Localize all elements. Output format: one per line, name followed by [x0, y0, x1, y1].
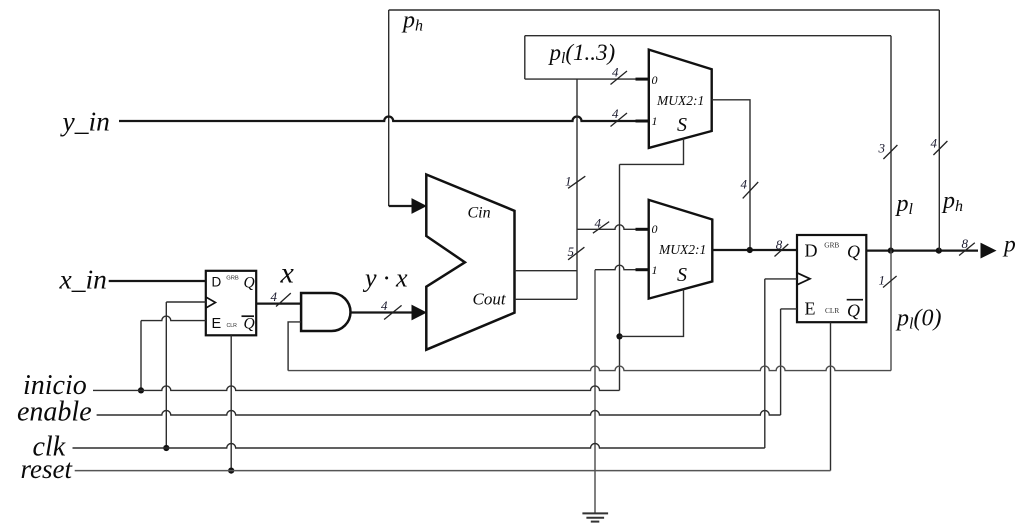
bus width slash 3 (p_l) — [883, 145, 897, 159]
svg-text:Q: Q — [847, 301, 860, 321]
bus width slash 8 (p output) — [959, 243, 975, 256]
overline for Qbar (FF1) — [242, 315, 255, 317]
AND gate — [301, 293, 350, 331]
overline for Qbar (FF2) — [847, 299, 863, 301]
svg-text:MUX2:1: MUX2:1 — [656, 93, 704, 108]
svg-text:GRB: GRB — [824, 240, 839, 249]
wire: MUX1 select S down-left — [620, 139, 684, 165]
svg-text:1: 1 — [652, 263, 658, 277]
wire: p_l vertical (3 bits up to p_l(1..3) line) — [890, 36, 892, 251]
svg-text:5: 5 — [568, 244, 575, 259]
svg-text:4: 4 — [381, 298, 388, 313]
wire: MUX2 input 1 from ground vertical (hop over select vertical) — [595, 265, 637, 270]
svg-text:CLR: CLR — [227, 323, 238, 329]
flip-flop U1 (x register) box — [206, 271, 256, 336]
wire: p_l(1..3) bottom horizontal to MUX1 input 0 — [525, 78, 637, 80]
arrowhead output p — [981, 244, 995, 258]
svg-text:4: 4 — [612, 65, 619, 80]
svg-text:x: x — [280, 257, 295, 290]
junction: inicio tap — [138, 387, 144, 393]
arrowhead into adder (bottom) — [412, 306, 426, 320]
junction: reset tap — [228, 468, 234, 474]
svg-text:x_in: x_in — [59, 264, 107, 295]
svg-text:8: 8 — [776, 237, 783, 252]
junction: MUX1 output joins MUX2 output — [747, 247, 753, 253]
wire: adder output bus vertical up to p_l(1..3) line — [576, 79, 578, 299]
wire: MUX2 input 0 line (hop over select vertical) — [577, 225, 637, 230]
bus stub MUX2 input 1 — [636, 268, 650, 271]
wire: select vertical to inicio — [619, 164, 621, 390]
bus width slash 4 (MUX2 input 0) — [593, 222, 609, 234]
bus width slash 4 (MUX1 input 0) — [611, 71, 628, 85]
flip-flop U2 (p register) box — [797, 235, 866, 322]
bus width slash 8 (FF2 D input) — [775, 244, 789, 257]
svg-text:0: 0 — [652, 73, 658, 87]
bus stub MUX2 input 0 — [636, 228, 650, 231]
wire: MUX1 output to right then down — [712, 100, 750, 250]
svg-text:enable: enable — [17, 397, 92, 428]
junction: p_l tap — [888, 248, 894, 254]
svg-text:1: 1 — [652, 114, 658, 128]
svg-text:MUX2:1: MUX2:1 — [658, 242, 706, 257]
wire: ground vertical — [594, 270, 596, 513]
svg-text:S: S — [677, 114, 687, 136]
wire: FF2 E input — [781, 308, 797, 310]
svg-text:3: 3 — [878, 141, 886, 156]
mux MUX1 (upper MUX2:1) trapezoid body — [649, 50, 712, 148]
wire: p_l(1..3) left vertical — [524, 36, 526, 79]
svg-text:E: E — [805, 299, 816, 319]
svg-text:8: 8 — [962, 236, 969, 251]
svg-text:D: D — [805, 241, 818, 261]
junction: clk tap — [163, 445, 169, 451]
svg-text:4: 4 — [595, 216, 602, 231]
svg-text:1: 1 — [879, 273, 886, 288]
svg-text:reset: reset — [21, 454, 74, 484]
bus width slash 1 (p_l(0)) — [883, 276, 897, 288]
wire: reset line — [75, 470, 831, 472]
wire: MUX2 select S down-left — [620, 289, 684, 336]
adder block (Cin/Cout ALU shape) — [426, 175, 514, 350]
svg-text:4: 4 — [931, 136, 938, 151]
wire: adder carry output (lower) — [515, 298, 578, 300]
wire: p_h feedback top horizontal — [389, 9, 940, 11]
svg-text:E: E — [212, 316, 222, 332]
wire: MUX2 output bus to FF2 D — [712, 249, 797, 251]
svg-text:Q: Q — [244, 275, 255, 292]
svg-text:y · x: y · x — [362, 264, 408, 293]
wire: FF2 clock input — [765, 278, 797, 280]
svg-text:4: 4 — [271, 289, 278, 304]
wire: FF1 clock input from clk vertical — [166, 301, 206, 303]
clock triangle (FF1) — [206, 297, 216, 308]
mux MUX2 (lower MUX2:1) trapezoid body — [649, 200, 713, 299]
svg-text:Cin: Cin — [468, 205, 491, 222]
junction: p_h tap — [936, 248, 942, 254]
bus stub MUX1 input 1 — [636, 120, 650, 123]
wire: p_h vertical (4 bits up to p_h line) — [938, 10, 940, 251]
bus width slash 1 (sum lsb) — [568, 176, 585, 188]
wire: FF1 Q output bus x to AND gate — [256, 302, 301, 304]
svg-text:0: 0 — [652, 222, 658, 236]
svg-text:CLR: CLR — [825, 306, 839, 315]
svg-text:pl(0): pl(0) — [895, 306, 941, 333]
wire: enable line (hops at 166.3, 231.2, 595, 764.8) — [97, 411, 781, 416]
wire: y_in bus with hops at x=388.7 and x=577.9 — [119, 117, 649, 122]
svg-text:Q: Q — [244, 316, 255, 333]
wire: p_l(1..3) top horizontal — [525, 35, 891, 37]
wire: inicio line (hops at 166.3, 231.2, 595) — [93, 386, 620, 391]
wire: x_in bus to FF1 D — [109, 280, 206, 282]
ground symbol — [582, 513, 608, 521]
svg-text:D: D — [212, 275, 222, 290]
bus width slash 4 (MUX1 input 1) — [611, 113, 628, 127]
wire: inicio vertical up to FF1 E — [140, 321, 142, 391]
wire: adder sum output (upper) — [515, 270, 578, 272]
wire: AND output bus y·x to adder — [350, 311, 413, 313]
wire: enable vertical to FF2 E — [780, 309, 782, 415]
junction: select vertical meets MUX2 S — [616, 333, 622, 339]
svg-text:pl(1..3): pl(1..3) — [548, 40, 616, 67]
wire: clk line (hops at 231.2, 595) — [73, 444, 765, 449]
wire: p_h feedback left vertical down to adder input — [388, 10, 390, 206]
bus width slash 4 (x bus) — [276, 293, 291, 306]
svg-text:Q: Q — [847, 242, 860, 262]
svg-text:GRB: GRB — [226, 276, 239, 282]
bus stub MUX1 input 0 — [636, 78, 650, 81]
arrowhead into adder Cin side (top) — [412, 199, 426, 213]
svg-text:p: p — [1002, 232, 1016, 258]
wire: p_l(0) vertical down from Q bus — [890, 251, 892, 371]
bus width slash 4 (p_h) — [933, 141, 947, 155]
wire: FF1 E input from inicio vertical (hop over clk vertical) — [141, 316, 206, 321]
wire: FF2 Q output bus to p — [866, 250, 978, 252]
svg-text:S: S — [677, 264, 687, 286]
wire: adder top input stub — [389, 205, 413, 207]
wire: p_l(0) feedback horizontal to AND gate (hops at 595, 619.5, 764.8, 780.6, 829.8) — [288, 366, 891, 370]
wire: FF1 CLR down to reset — [230, 335, 232, 470]
bus width slash 4 (MUX1 output vertical) — [743, 182, 759, 198]
wire: clk vertical to FF2 — [764, 279, 766, 448]
wire: AND second input from p_l(0) feedback — [288, 322, 301, 371]
wire: FF2 CLR down to reset — [830, 322, 832, 470]
svg-text:1: 1 — [565, 174, 572, 189]
svg-text:4: 4 — [612, 106, 619, 121]
svg-text:y_in: y_in — [60, 106, 110, 137]
svg-text:Cout: Cout — [473, 290, 507, 309]
bus width slash 5 — [568, 247, 584, 260]
clock triangle (FF2) — [797, 273, 810, 285]
bus width slash 4 (y·x bus) — [384, 305, 402, 319]
wire: clk vertical up to FF1 — [165, 302, 167, 448]
svg-text:4: 4 — [741, 177, 748, 192]
